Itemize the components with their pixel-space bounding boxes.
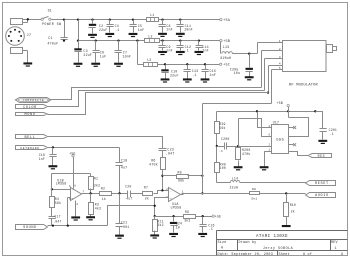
svg-text:LM358: LM358 (171, 205, 182, 209)
svg-text:+: + (71, 197, 73, 200)
svg-text:C1: C1 (48, 36, 52, 40)
svg-text:22uF: 22uF (170, 73, 179, 77)
svg-text:U17: U17 (273, 120, 279, 124)
svg-text:10nF: 10nF (184, 28, 193, 32)
svg-text:1nF: 1nF (138, 28, 145, 32)
svg-text:.047: .047 (53, 220, 61, 224)
svg-text:R1: R1 (94, 177, 98, 181)
svg-text:+5A: +5A (223, 19, 231, 23)
svg-text:10nF: 10nF (122, 55, 131, 59)
svg-text:R8: R8 (178, 170, 182, 174)
svg-text:.1: .1 (185, 49, 189, 53)
svg-text:POWER SW: POWER SW (42, 22, 61, 26)
svg-text:.1: .1 (192, 73, 196, 77)
svg-text:C200: C200 (221, 137, 229, 141)
svg-text:KEYBOARD: KEYBOARD (20, 147, 39, 150)
svg-text:R8: R8 (252, 187, 256, 191)
svg-text:.001: .001 (121, 225, 129, 229)
svg-text:56k: 56k (55, 201, 61, 205)
svg-text:5: 5 (69, 198, 71, 201)
svg-text:+: + (170, 198, 172, 201)
svg-text:S1: S1 (48, 8, 52, 12)
svg-text:R9: R9 (185, 210, 189, 214)
svg-text:3: 3 (279, 56, 281, 59)
svg-text:8 of: 8 of (303, 252, 312, 257)
svg-text:L13: L13 (223, 45, 230, 49)
svg-text:C21: C21 (121, 220, 127, 224)
svg-text:+5E: +5E (215, 215, 222, 219)
svg-text:.1: .1 (219, 150, 223, 153)
svg-text:5k1: 5k1 (251, 197, 257, 201)
svg-text:470k: 470k (242, 152, 250, 156)
svg-text:1nF: 1nF (166, 49, 173, 53)
svg-text:1: 1 (269, 149, 271, 152)
svg-text:9: 9 (341, 253, 343, 257)
svg-text:J7: J7 (27, 34, 32, 38)
svg-text:1nF: 1nF (39, 157, 45, 161)
svg-text:22uH: 22uH (230, 185, 238, 189)
svg-text:68k: 68k (178, 178, 184, 182)
svg-text:4u7: 4u7 (126, 197, 132, 201)
svg-text:4u7: 4u7 (121, 166, 128, 170)
svg-text:2k2: 2k2 (157, 223, 163, 227)
svg-text:820uH: 820uH (220, 56, 231, 60)
svg-text:100: 100 (220, 166, 226, 170)
svg-text:AUDIO: AUDIO (315, 194, 329, 198)
svg-text:REV: REV (331, 241, 338, 245)
svg-text:R7: R7 (144, 185, 148, 189)
svg-text:555: 555 (276, 139, 284, 143)
svg-text:Date: September 20, 2003: Date: September 20, 2003 (218, 252, 274, 257)
svg-text:R2: R2 (101, 187, 105, 191)
svg-text:Sheet: Sheet (279, 252, 290, 257)
svg-text:4: 4 (279, 63, 281, 66)
svg-text:-: - (170, 190, 172, 193)
svg-text:1nF: 1nF (166, 28, 173, 32)
svg-text:2k: 2k (145, 197, 149, 201)
svg-text:C19: C19 (121, 158, 128, 162)
svg-text:56k: 56k (219, 126, 225, 130)
svg-text:1k: 1k (102, 197, 106, 201)
svg-text:SOUND: SOUND (23, 226, 37, 230)
svg-text:22uF: 22uF (83, 53, 92, 57)
svg-text:2k: 2k (291, 209, 295, 213)
svg-text:+5B: +5B (276, 101, 283, 105)
svg-text:1: 1 (335, 247, 337, 251)
svg-text:4: 4 (76, 203, 78, 206)
svg-text:+5E: +5E (69, 151, 76, 155)
svg-text:Drawn by: Drawn by (239, 240, 257, 245)
svg-text:COMPOSITE: COMPOSITE (23, 98, 45, 102)
svg-text:L14: L14 (232, 176, 238, 180)
svg-text:1nF: 1nF (210, 73, 217, 77)
svg-text:8: 8 (74, 185, 76, 188)
svg-text:22uF: 22uF (99, 28, 108, 32)
svg-text:BELL: BELL (24, 136, 35, 140)
svg-text:LM358: LM358 (56, 182, 67, 186)
svg-text:C20: C20 (125, 185, 131, 189)
svg-text:C17: C17 (54, 214, 60, 218)
svg-text:.1: .1 (209, 227, 213, 231)
svg-text:RES: RES (318, 154, 326, 158)
svg-text:10u: 10u (234, 71, 241, 75)
svg-text:R10: R10 (290, 203, 296, 207)
svg-text:L1: L1 (150, 13, 154, 17)
svg-text:1uF: 1uF (100, 55, 107, 59)
svg-text:4k3: 4k3 (95, 206, 101, 210)
svg-text:L2: L2 (148, 34, 152, 38)
svg-text:.047: .047 (166, 151, 175, 155)
svg-text:.1: .1 (115, 28, 119, 32)
svg-text:RF MODULATOR: RF MODULATOR (289, 83, 319, 87)
svg-text:.1: .1 (330, 132, 334, 136)
svg-text:1nF: 1nF (202, 49, 209, 53)
svg-text:4: 4 (269, 125, 271, 128)
svg-text:ATARI 130XE: ATARI 130XE (256, 235, 288, 239)
svg-text:+5B: +5B (223, 40, 230, 44)
svg-text:Size: Size (218, 240, 227, 245)
svg-text:6: 6 (69, 185, 71, 188)
svg-text:MONO: MONO (24, 113, 35, 117)
svg-text:2k2: 2k2 (94, 184, 100, 188)
svg-text:3k3: 3k3 (184, 218, 190, 222)
svg-text:Jerzy SOBOLA: Jerzy SOBOLA (263, 246, 294, 251)
svg-text:-: - (71, 189, 73, 192)
svg-text:5: 5 (279, 67, 281, 70)
svg-text:2: 2 (269, 143, 271, 146)
svg-text:6: 6 (269, 134, 271, 137)
svg-text:L3: L3 (147, 58, 151, 62)
svg-text:470uF: 470uF (47, 41, 58, 45)
svg-text:1: 1 (279, 40, 281, 43)
svg-text:COLOR: COLOR (23, 106, 37, 110)
svg-text:2: 2 (166, 188, 168, 191)
svg-text:10: 10 (176, 225, 180, 229)
svg-text:2: 2 (279, 48, 281, 51)
svg-text:470k: 470k (149, 162, 158, 166)
svg-text:RESET: RESET (315, 182, 329, 186)
